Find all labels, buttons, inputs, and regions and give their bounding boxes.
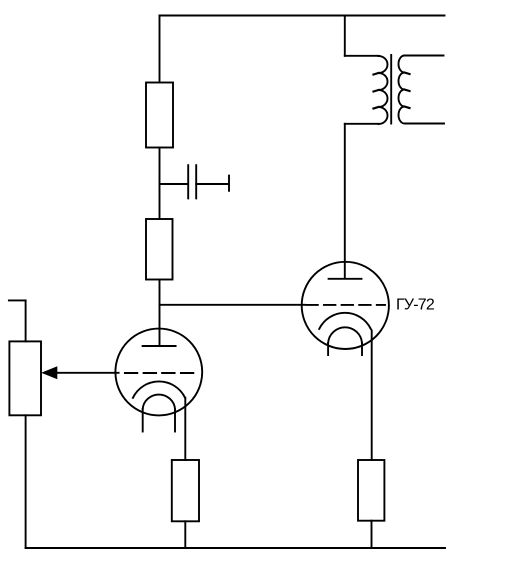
wire transformer primary to V2 anode [344,124,346,279]
wire top supply bus [160,15,445,17]
transformer T1 primary winding [379,56,388,124]
wire node to V2 grid [160,304,306,306]
V2 heater leg left [327,343,329,355]
wire transformer primary top lead [345,55,379,57]
wire R3 to ground bus [184,521,186,548]
V1 anode plate [143,345,176,347]
V1 heater leg right [174,409,176,432]
svg-text:ГУ-72: ГУ-72 [396,297,435,314]
V2 anode plate [329,278,362,280]
transformer T1 secondary cusp hooks [405,73,410,109]
wire transformer primary bottom lead [345,123,379,125]
V2 heater leg right [361,343,363,355]
wire bottom ground bus [26,547,445,549]
V2 cathode arc [319,313,371,329]
potentiometer RV1 top lead [25,300,27,341]
capacitor C1 terminal bar [228,176,230,191]
potentiometer RV1 wiper arrow [41,366,57,379]
transformer T1 primary cusp hooks [374,73,379,109]
wire left drop from bus to R1 [159,16,161,83]
wire R1 to R2 [159,148,161,220]
wire bus drop to transformer primary [344,16,346,56]
resistor R1 (anode load top) [146,83,173,148]
V1 cathode lead to R3 [184,398,186,460]
V2 cathode lead to R4 [371,331,373,461]
resistor R3 (V1 cathode) [172,460,199,521]
wire wiper to V1 grid [57,372,119,374]
capacitor C1 lead left [160,183,189,185]
wire transformer secondary top lead [405,55,444,57]
transformer T1 core [390,55,392,124]
tube V2 envelope [302,262,389,349]
capacitor C1 plate right [195,165,197,198]
wire R4 to ground bus [371,521,373,548]
potentiometer RV1 body [9,341,41,415]
resistor R2 (anode load bottom) [146,219,173,280]
potentiometer RV1 top stub [9,299,26,301]
potentiometer RV1 bottom lead [25,415,27,548]
resistor R4 (V2 cathode) [358,460,384,521]
transformer T1 secondary winding [399,56,405,124]
wire R2 down to V1 anode [159,280,161,347]
V2 heater dome [328,327,362,343]
wire transformer secondary bottom lead [406,123,444,125]
tube V1 envelope [115,329,202,416]
V1 grid dashed [125,372,193,374]
V1 heater dome [143,395,175,409]
capacitor C1 plate left [187,165,189,198]
V1 heater leg left [142,409,144,432]
V2 grid dashed [306,304,385,306]
V1 cathode arc [133,381,185,397]
capacitor C1 lead right [196,183,229,185]
